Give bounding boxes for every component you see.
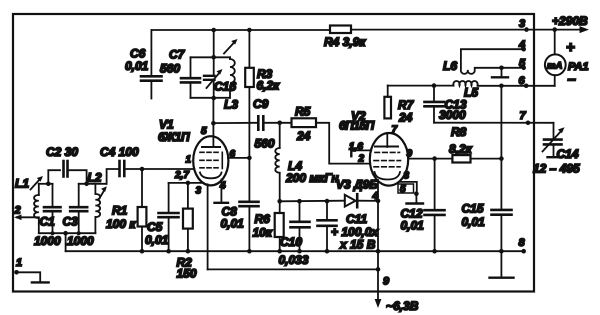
6.3V heater arrow: [375, 269, 419, 313]
resistor R5: [292, 105, 317, 144]
wire tanks bottom: [39, 232, 96, 234]
node C2 right: [84, 182, 89, 187]
svg-text:3: 3: [404, 171, 410, 182]
svg-text:24: 24: [398, 111, 413, 125]
V2 pin 5 boxed label: [398, 184, 414, 195]
ground at L6 junction: [492, 68, 508, 78]
svg-text:6,2к: 6,2к: [257, 79, 281, 93]
capacitor C14 variable: [533, 123, 580, 176]
svg-text:150: 150: [177, 267, 197, 281]
svg-text:24: 24: [296, 129, 311, 143]
capacitor C13: [425, 86, 467, 123]
V1 pins 2,7 cathode wire: [169, 170, 204, 185]
node terminal 7: [520, 110, 531, 125]
node B+ drop: [211, 28, 216, 33]
svg-text:R6: R6: [255, 212, 271, 226]
wire anode to C9: [213, 122, 258, 124]
svg-text:560: 560: [160, 62, 180, 76]
capacitor C1: [34, 184, 61, 248]
svg-text:6: 6: [230, 149, 236, 160]
+290V supply arrow: [552, 14, 589, 33]
border frame of chassis: [13, 14, 534, 292]
node L6 ground junction: [499, 66, 504, 71]
V1 pin 4 heater lead: [219, 180, 226, 203]
wire tank top: [191, 56, 231, 58]
svg-text:R1: R1: [112, 204, 128, 218]
capacitor C7: [160, 48, 200, 98]
capacitor C12: [401, 159, 445, 254]
node terminal 6: [519, 75, 529, 88]
svg-text:6Ж1П: 6Ж1П: [158, 130, 190, 144]
svg-text:~6,3В: ~6,3В: [386, 299, 419, 313]
svg-text:6П15П: 6П15П: [339, 119, 375, 133]
svg-text:9: 9: [407, 149, 413, 160]
capacitor C5: [145, 183, 179, 254]
svg-text:V3 Д9Б: V3 Д9Б: [336, 178, 378, 192]
pentode V2 envelope: [339, 109, 408, 186]
svg-text:200 мкГн: 200 мкГн: [285, 171, 339, 185]
svg-text:С7: С7: [169, 48, 186, 62]
ground at V2 cathode: [407, 194, 424, 204]
capacitor C4: [100, 145, 139, 184]
capacitor C9: [253, 97, 275, 151]
node C1 bottom: [51, 231, 55, 235]
svg-text:2,7: 2,7: [174, 170, 189, 181]
svg-text:L6: L6: [443, 59, 457, 73]
svg-text:С5: С5: [147, 220, 163, 234]
svg-text:С4 100: С4 100: [100, 145, 139, 159]
svg-text:4: 4: [219, 181, 226, 192]
svg-text:С1: С1: [40, 215, 56, 229]
resistor R2: [177, 183, 197, 281]
capacitor C16 trimmer: [204, 57, 236, 98]
node C2 left: [46, 182, 51, 187]
diode V3: [336, 178, 378, 208]
milliammeter PA1: [545, 30, 589, 88]
V2 pin 4 heater lead: [372, 180, 379, 269]
svg-text:100 к: 100 к: [106, 217, 136, 231]
svg-text:R8: R8: [451, 125, 467, 139]
svg-text:mA: mA: [547, 60, 562, 71]
svg-text:8,2к: 8,2к: [449, 142, 473, 156]
V2 pin 9 screen wire: [407, 149, 453, 161]
svg-text:2: 2: [14, 205, 21, 217]
svg-text:С2 30: С2 30: [46, 145, 78, 159]
svg-text:С9: С9: [253, 97, 269, 111]
node B+ meter junction: [552, 27, 557, 32]
wire R3 to pin6: [248, 87, 250, 158]
V2 cathode: [375, 172, 401, 180]
V1 pin 1 grid wire: [124, 155, 194, 170]
capacitor C15: [462, 86, 512, 276]
capacitor C2: [46, 145, 87, 184]
node anode junction: [211, 121, 216, 126]
svg-text:х 15 В: х 15 В: [339, 238, 376, 252]
svg-text:–: –: [568, 71, 576, 88]
resistor R7: [384, 86, 414, 125]
svg-text:С11: С11: [346, 212, 367, 226]
svg-text:+290В: +290В: [552, 14, 588, 28]
wire detector line: [280, 200, 378, 203]
tank L1 C1 top wire: [39, 183, 53, 185]
svg-text:8: 8: [519, 237, 526, 249]
wire filament line: [208, 268, 378, 270]
resistor R6: [253, 201, 284, 253]
resistor R8: [449, 125, 473, 163]
node cathode junction V2: [414, 191, 419, 196]
svg-text:L1: L1: [15, 177, 29, 191]
svg-text:1: 1: [16, 257, 22, 269]
svg-text:L2: L2: [88, 171, 102, 185]
node terminal 4: [518, 39, 526, 52]
svg-text:3000: 3000: [439, 108, 466, 122]
V1 grids dashed: [200, 152, 221, 168]
L2 tuning arrow: [99, 186, 107, 199]
svg-text:С15: С15: [462, 202, 484, 216]
resistor R4: [324, 26, 366, 50]
node L4 top: [277, 121, 282, 126]
capacitor C3: [63, 184, 95, 248]
wire R5 to V2 grid: [316, 123, 370, 164]
svg-text:12 – 495: 12 – 495: [533, 162, 580, 176]
node C11 top: [325, 199, 330, 204]
ground at C15 bottom: [490, 277, 514, 279]
svg-text:6: 6: [519, 75, 526, 87]
wire C9 to R5 node: [263, 122, 291, 124]
node heater bus crossing: [376, 249, 381, 254]
capacitor C11 electrolytic: [318, 201, 380, 253]
svg-text:С10: С10: [280, 235, 302, 249]
V2 pins 1,6 stub with bar: [349, 142, 371, 157]
wire anode riser V1: [212, 98, 214, 137]
V2 pin 3 wire: [400, 171, 417, 194]
svg-text:560: 560: [255, 137, 275, 151]
svg-text:3: 3: [196, 186, 202, 197]
svg-text:С3: С3: [63, 215, 79, 229]
svg-text:4: 4: [518, 39, 525, 51]
node C13 top: [432, 83, 437, 88]
inductor L2: [88, 171, 102, 234]
svg-text:С14: С14: [557, 147, 579, 161]
svg-text:0,033: 0,033: [279, 253, 309, 267]
svg-text:5: 5: [519, 58, 526, 70]
svg-text:1: 1: [186, 155, 192, 166]
V1 pin 3 heater lead: [196, 184, 208, 269]
V1 anode: [202, 137, 220, 148]
node L5 right junction: [499, 84, 504, 89]
V2 grids dashed: [374, 152, 401, 166]
node terminal 8: [519, 237, 527, 254]
svg-text:5: 5: [201, 126, 207, 137]
wire terminal 1: [14, 257, 40, 281]
node C10 top: [297, 199, 302, 204]
node C3 bottom: [77, 231, 81, 235]
tank L2 C3 top wire: [79, 183, 107, 185]
svg-text:0,01: 0,01: [462, 215, 486, 229]
capacitor C8: [221, 158, 259, 254]
wire terminal 2: [14, 205, 39, 221]
svg-text:1000: 1000: [34, 234, 61, 248]
V1 pin 6 screen wire: [228, 149, 252, 160]
V1 cathode: [200, 173, 222, 179]
svg-text:7: 7: [520, 110, 527, 122]
inductor L3: [224, 57, 238, 111]
node terminal 3: [519, 18, 529, 32]
node tank top: [211, 55, 216, 60]
inductor L6: [443, 49, 524, 74]
node terminal 5: [519, 58, 526, 71]
inductor L1: [15, 177, 39, 234]
ground at V1 pin 4: [215, 202, 229, 204]
wire riser to bus: [65, 233, 67, 251]
svg-text:1000: 1000: [67, 234, 94, 248]
node R8 right: [499, 156, 504, 161]
wire ground bus: [66, 250, 524, 252]
L3 tuning core arrow: [224, 39, 238, 54]
inductor L5: [453, 81, 478, 99]
node diode to heater: [376, 199, 381, 204]
resistor R3: [245, 28, 280, 93]
svg-text:0,01: 0,01: [125, 59, 149, 73]
capacitor C10: [279, 201, 310, 267]
triode V1 envelope: [158, 118, 228, 186]
svg-text:+: +: [566, 39, 575, 56]
wire R7 top to L5: [388, 85, 454, 87]
node L4 bottom: [277, 199, 282, 204]
wire B+ after R4 to +290V arrow: [351, 29, 584, 31]
svg-text:3: 3: [519, 18, 525, 30]
svg-text:7: 7: [392, 125, 398, 136]
inductor L4: [275, 123, 339, 202]
svg-text:2: 2: [358, 154, 365, 165]
ground at terminal 1: [32, 281, 49, 283]
svg-text:10к: 10к: [253, 226, 273, 240]
wire L5 to terminal 6 and meter: [478, 85, 555, 87]
capacitor C6: [125, 30, 162, 99]
svg-text:0,01: 0,01: [145, 233, 169, 247]
svg-text:R5: R5: [295, 105, 311, 119]
svg-text:5: 5: [400, 184, 406, 195]
node tank bottom riser: [63, 231, 68, 236]
V2 anode: [375, 134, 398, 148]
wire R8 right to C15 rail: [471, 158, 502, 160]
wire B+ top line: [152, 29, 330, 31]
svg-text:R4 3,9к: R4 3,9к: [324, 35, 366, 49]
L1 tuning arrow: [31, 176, 44, 190]
node terminal 9: [376, 267, 390, 287]
svg-text:0,01: 0,01: [221, 217, 245, 231]
svg-text:L5: L5: [464, 86, 478, 100]
resistor R1: [106, 167, 146, 254]
svg-text:1,6: 1,6: [349, 142, 363, 153]
svg-text:9: 9: [383, 276, 390, 288]
wire terminal 7 line: [434, 122, 554, 124]
wire tank bottom: [191, 97, 231, 99]
svg-text:0,01: 0,01: [401, 219, 425, 233]
node tank bottom: [211, 96, 216, 101]
svg-text:L3: L3: [224, 98, 238, 112]
wire B+ drop to tank top: [213, 30, 215, 57]
